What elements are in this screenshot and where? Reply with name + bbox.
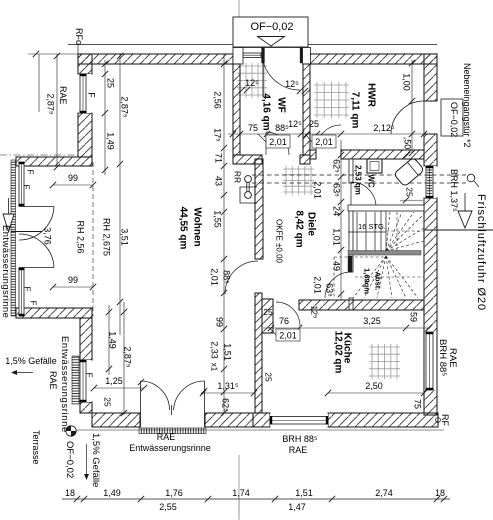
svg-text:99: 99 bbox=[215, 317, 225, 327]
svg-text:F: F bbox=[22, 184, 32, 189]
svg-text:1,47: 1,47 bbox=[288, 502, 306, 512]
svg-text:24: 24 bbox=[332, 206, 342, 216]
svg-text:88⁵: 88⁵ bbox=[275, 123, 289, 133]
svg-text:2,87⁵: 2,87⁵ bbox=[46, 93, 56, 115]
svg-text:49: 49 bbox=[332, 261, 342, 271]
svg-text:99: 99 bbox=[68, 275, 78, 285]
svg-text:1,55: 1,55 bbox=[213, 210, 223, 228]
svg-text:RAE: RAE bbox=[48, 371, 58, 390]
svg-text:F: F bbox=[23, 286, 33, 291]
svg-text:x1: x1 bbox=[210, 363, 219, 372]
svg-text:12⁵: 12⁵ bbox=[310, 306, 320, 319]
svg-text:63⁵: 63⁵ bbox=[332, 183, 342, 197]
svg-text:1,49: 1,49 bbox=[103, 488, 121, 498]
svg-text:12⁵: 12⁵ bbox=[285, 79, 299, 89]
svg-text:25: 25 bbox=[263, 307, 273, 317]
svg-text:RAE: RAE bbox=[289, 445, 308, 455]
svg-text:2,01: 2,01 bbox=[210, 268, 220, 286]
svg-text:Terrasse: Terrasse bbox=[31, 430, 41, 465]
svg-text:25: 25 bbox=[405, 187, 415, 197]
svg-text:71: 71 bbox=[214, 153, 224, 163]
svg-text:1,5% Gefälle: 1,5% Gefälle bbox=[5, 356, 57, 366]
svg-text:Diele: Diele bbox=[306, 212, 317, 236]
svg-text:OF−0,02: OF−0,02 bbox=[449, 102, 459, 137]
svg-text:2,50: 2,50 bbox=[365, 381, 383, 391]
svg-text:RAE: RAE bbox=[58, 86, 68, 105]
svg-text:3,51: 3,51 bbox=[120, 228, 130, 246]
svg-text:RFo: RFo bbox=[74, 28, 84, 45]
svg-text:Abst.: Abst. bbox=[374, 272, 383, 291]
svg-text:Frischluftzufuhr Ø20: Frischluftzufuhr Ø20 bbox=[475, 194, 487, 311]
svg-text:1,69qm: 1,69qm bbox=[363, 268, 372, 294]
svg-text:F: F bbox=[87, 92, 97, 98]
svg-text:1,00: 1,00 bbox=[402, 73, 412, 91]
svg-text:2,33: 2,33 bbox=[210, 341, 220, 359]
svg-text:16 STG.: 16 STG. bbox=[358, 222, 386, 231]
svg-text:OF−0,02: OF−0,02 bbox=[64, 441, 75, 478]
svg-text:Wohnen: Wohnen bbox=[192, 207, 203, 246]
svg-text:8,42 qm: 8,42 qm bbox=[294, 210, 305, 247]
svg-text:1,25: 1,25 bbox=[105, 376, 123, 386]
svg-text:HWR: HWR bbox=[366, 83, 377, 108]
svg-text:2,56: 2,56 bbox=[213, 91, 223, 109]
svg-text:4,16 qm: 4,16 qm bbox=[261, 93, 272, 130]
svg-text:88⁵: 88⁵ bbox=[222, 270, 232, 284]
svg-text:25: 25 bbox=[106, 78, 116, 88]
svg-text:7,11 qm: 7,11 qm bbox=[350, 92, 361, 129]
svg-text:2,01: 2,01 bbox=[279, 331, 297, 341]
svg-text:3,25: 3,25 bbox=[363, 316, 381, 326]
svg-text:Entwässerungsrinne: Entwässerungsrinne bbox=[0, 225, 11, 318]
svg-text:17⁵: 17⁵ bbox=[213, 128, 223, 142]
svg-text:1,31⁵: 1,31⁵ bbox=[217, 381, 239, 391]
svg-text:2,74: 2,74 bbox=[375, 488, 393, 498]
svg-text:BRH 88⁵: BRH 88⁵ bbox=[437, 339, 448, 376]
svg-text:,50: ,50 bbox=[403, 137, 413, 150]
svg-text:25: 25 bbox=[264, 372, 274, 382]
svg-text:2,01: 2,01 bbox=[313, 276, 323, 294]
svg-text:63⁵: 63⁵ bbox=[325, 283, 335, 297]
svg-text:2,87⁵: 2,87⁵ bbox=[123, 346, 133, 368]
svg-text:OF−0,02: OF−0,02 bbox=[250, 21, 293, 33]
svg-text:1,51: 1,51 bbox=[295, 488, 313, 498]
svg-text:2,01: 2,01 bbox=[315, 137, 333, 147]
svg-text:2,12⁵: 2,12⁵ bbox=[373, 123, 395, 133]
svg-text:2,87⁵: 2,87⁵ bbox=[120, 96, 130, 118]
svg-text:3,76: 3,76 bbox=[43, 227, 53, 245]
svg-text:RR: RR bbox=[233, 171, 243, 183]
svg-text:62⁵: 62⁵ bbox=[221, 398, 231, 412]
svg-text:RF: RF bbox=[440, 414, 450, 426]
svg-text:12⁵: 12⁵ bbox=[245, 78, 259, 88]
svg-text:Nebeneingangstür *2: Nebeneingangstür *2 bbox=[462, 63, 472, 148]
svg-text:1,51: 1,51 bbox=[223, 343, 233, 361]
svg-text:18: 18 bbox=[65, 488, 75, 498]
svg-text:2,01: 2,01 bbox=[313, 181, 323, 199]
svg-text:25: 25 bbox=[103, 397, 113, 407]
svg-text:1,01: 1,01 bbox=[332, 228, 342, 246]
svg-text:59: 59 bbox=[409, 312, 419, 322]
svg-text:RH 2,675: RH 2,675 bbox=[102, 218, 112, 256]
svg-text:1,49: 1,49 bbox=[106, 132, 116, 150]
svg-text:F: F bbox=[26, 169, 36, 174]
svg-text:RAE: RAE bbox=[157, 432, 176, 442]
svg-text:1,74: 1,74 bbox=[232, 488, 250, 498]
svg-text:1,49: 1,49 bbox=[108, 331, 118, 349]
svg-text:OKFE ±0,00: OKFE ±0,00 bbox=[275, 219, 284, 264]
svg-text:Entwässerungsrinne: Entwässerungsrinne bbox=[59, 336, 70, 433]
svg-text:75: 75 bbox=[413, 399, 423, 409]
svg-text:25: 25 bbox=[309, 119, 319, 129]
svg-text:WC: WC bbox=[367, 174, 376, 188]
svg-text:99: 99 bbox=[68, 173, 78, 183]
svg-text:WF: WF bbox=[276, 97, 287, 113]
svg-text:75: 75 bbox=[248, 123, 258, 133]
svg-text:2,55: 2,55 bbox=[159, 502, 177, 512]
svg-text:62⁵: 62⁵ bbox=[332, 159, 342, 173]
svg-text:76: 76 bbox=[279, 316, 289, 326]
svg-text:Entwässerungsrinne: Entwässerungsrinne bbox=[129, 443, 211, 453]
svg-text:RH 2,56: RH 2,56 bbox=[76, 220, 86, 253]
svg-text:2,01: 2,01 bbox=[269, 137, 287, 147]
svg-text:2,53 qm: 2,53 qm bbox=[354, 165, 363, 195]
svg-text:18: 18 bbox=[435, 488, 445, 498]
svg-text:BRH 88⁵: BRH 88⁵ bbox=[282, 434, 318, 444]
svg-text:BRH 1,37⁵: BRH 1,37⁵ bbox=[449, 169, 459, 212]
svg-text:F: F bbox=[29, 300, 39, 305]
svg-text:43: 43 bbox=[214, 176, 224, 186]
svg-text:1,76: 1,76 bbox=[165, 488, 183, 498]
svg-text:12⁵: 12⁵ bbox=[288, 119, 302, 129]
svg-text:F: F bbox=[85, 372, 95, 377]
svg-text:44,55 qm: 44,55 qm bbox=[178, 207, 189, 250]
svg-text:1,5% Gefälle: 1,5% Gefälle bbox=[90, 433, 101, 487]
svg-text:12,02 qm: 12,02 qm bbox=[333, 331, 344, 374]
